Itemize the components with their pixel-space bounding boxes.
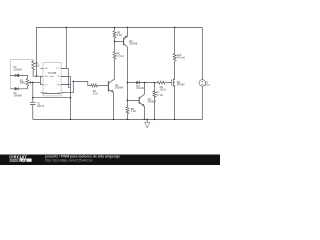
svg-text:1 kΩ: 1 kΩ	[131, 111, 136, 113]
svg-text:100 nF: 100 nF	[37, 106, 45, 108]
svg-text:500Ω: 500Ω	[20, 83, 26, 85]
svg-text:4.7 kΩ: 4.7 kΩ	[156, 95, 163, 97]
svg-text:2N3906: 2N3906	[129, 44, 138, 46]
svg-text:timer: timer	[50, 75, 55, 78]
svg-text:470 mΩ: 470 mΩ	[177, 58, 185, 60]
svg-text:4.7 kΩ: 4.7 kΩ	[117, 56, 124, 58]
svg-text:12 V: 12 V	[205, 85, 210, 87]
svg-text:2N3904: 2N3904	[148, 102, 157, 104]
svg-text:1 kΩ: 1 kΩ	[35, 66, 40, 68]
svg-text:1N4148: 1N4148	[14, 96, 23, 98]
svg-text:TLC555: TLC555	[48, 72, 57, 75]
svg-text:1N4148: 1N4148	[14, 70, 23, 72]
svg-text:2N3904: 2N3904	[115, 87, 124, 89]
svg-text:IRF540: IRF540	[177, 85, 185, 87]
svg-text:1N4148: 1N4148	[136, 88, 145, 90]
svg-text:THR: THR	[57, 84, 62, 86]
svg-text:CTL: CTL	[57, 92, 61, 94]
svg-text:GND: GND	[44, 68, 49, 70]
svg-text:http://circuitlab.com/c/25v4m2: http://circuitlab.com/c/25v4m2w	[45, 158, 93, 162]
svg-text:1 kΩ: 1 kΩ	[93, 93, 98, 95]
svg-text:VCC: VCC	[56, 68, 61, 70]
svg-text:1 kΩ: 1 kΩ	[117, 35, 122, 37]
svg-text:TRIG: TRIG	[44, 76, 49, 78]
svg-text:100 Ω: 100 Ω	[160, 90, 167, 92]
svg-text:LAB: LAB	[20, 158, 28, 162]
